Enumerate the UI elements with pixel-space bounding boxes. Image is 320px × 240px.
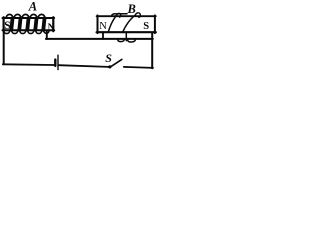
coil A bottom winding loops	[4, 31, 49, 34]
coil A top winding loops	[6, 14, 45, 18]
svg-text:S: S	[4, 20, 10, 32]
coil B bottom curl 2	[127, 39, 135, 42]
coil B bottom riser	[125, 33, 127, 41]
coil B top lead	[112, 14, 127, 15]
magnet B rectangle	[97, 15, 156, 33]
battery short plate	[54, 60, 56, 66]
coil B front turn 2	[123, 15, 136, 32]
wire: right vertical	[151, 33, 153, 68]
switch blade	[110, 59, 122, 67]
coil B bottom curl 1	[118, 39, 125, 42]
coil B top curl 1	[116, 13, 120, 17]
coil B front turn 1	[108, 16, 116, 33]
svg-text:N: N	[48, 23, 55, 33]
svg-text:S: S	[143, 21, 149, 32]
wire: bottom left segment to battery	[3, 63, 54, 66]
svg-text:N: N	[99, 21, 107, 32]
wire: switch to right corner	[124, 67, 153, 68]
svg-text:B: B	[127, 2, 136, 16]
coil B top curl 2	[135, 13, 140, 18]
battery long plate	[57, 55, 59, 69]
coil A front winding bands	[11, 18, 44, 29]
svg-text:A: A	[28, 0, 37, 14]
wire: battery to switch	[59, 65, 108, 67]
switch contact dot	[108, 65, 111, 68]
wire: A left lead down	[3, 31, 5, 64]
coil A body rectangle	[3, 17, 55, 31]
wire: middle horizontal	[46, 38, 153, 40]
wire: B left lead down	[102, 33, 104, 39]
wire: A right lead down	[46, 31, 48, 39]
svg-text:S: S	[105, 51, 112, 65]
